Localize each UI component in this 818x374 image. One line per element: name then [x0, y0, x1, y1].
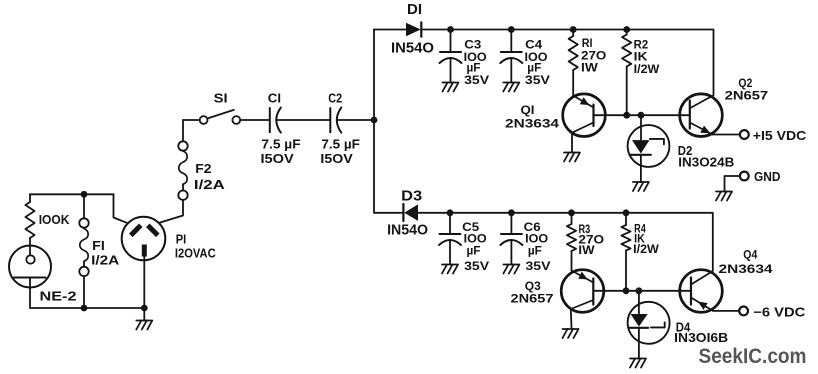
plug P1 left prong — [131, 225, 141, 235]
D4 cathode bar — [630, 327, 649, 329]
ground under Q1 — [564, 153, 580, 162]
Q2 collector slant — [690, 95, 714, 108]
wire C5 lead — [449, 213, 451, 234]
node D4-base junction — [636, 287, 643, 294]
svg-text:IN54O: IN54O — [391, 40, 434, 56]
wire C2 to node — [337, 119, 374, 121]
wire R3 top lead — [571, 213, 573, 224]
diode D1 triangle — [406, 23, 421, 36]
wire R1 top lead — [572, 30, 574, 37]
capacitor C2 curved plate — [337, 108, 342, 133]
capacitor C6 curved plate — [500, 240, 522, 245]
capacitor C2 left plate — [329, 108, 331, 132]
switch S1 right contact — [232, 116, 240, 124]
svg-text:C4: C4 — [525, 39, 543, 51]
wire D4 top lead — [638, 291, 640, 314]
svg-text:RI: RI — [582, 38, 593, 50]
svg-text:SI: SI — [214, 90, 228, 105]
node R2-base junction — [623, 112, 630, 119]
fuse F1 top terminal — [79, 218, 88, 227]
svg-text:C5: C5 — [462, 222, 480, 234]
wire plug ground stem — [143, 308, 145, 321]
plug P1 bottom prong — [142, 245, 147, 257]
node R4-base junction — [623, 287, 630, 294]
svg-text:7.5 µF: 7.5 µF — [321, 137, 360, 151]
capacitor C5 curved plate — [439, 240, 461, 245]
NE-2 dot electrode — [26, 255, 34, 263]
svg-text:µF: µF — [467, 245, 481, 257]
transistor Q2 body — [680, 94, 723, 137]
NE-2 top electrode lead — [29, 246, 31, 256]
Q3 collector slant — [571, 300, 594, 309]
node R1 junction — [570, 26, 577, 33]
capacitor C3 curved plate — [440, 58, 462, 63]
zener diode D2 envelope — [628, 125, 670, 167]
svg-text:F2: F2 — [195, 162, 211, 176]
wire R1 to Q1 emitter — [572, 70, 574, 96]
node R2 junction — [623, 26, 630, 33]
Q1 collector slant — [572, 123, 594, 133]
resistor R 100K — [25, 202, 34, 238]
svg-text:C3: C3 — [464, 39, 481, 51]
svg-text:IN3O24B: IN3O24B — [678, 156, 734, 170]
svg-text:2N657: 2N657 — [725, 89, 769, 103]
neon lamp NE-2 envelope — [9, 246, 51, 288]
svg-text:IK: IK — [634, 52, 649, 64]
Q2 emitter arrow — [700, 126, 710, 134]
Q1 base bar — [592, 105, 594, 127]
wire GND terminal lead — [725, 176, 740, 192]
wire S1 to C1 — [240, 119, 270, 121]
svg-text:7.5 µF: 7.5 µF — [261, 137, 301, 151]
wire main vertical — [373, 30, 375, 213]
ground under GND terminal — [716, 192, 732, 201]
wire R2 top lead — [626, 30, 628, 35]
wire C1 to C2 — [276, 119, 330, 121]
wire D2 top lead — [640, 115, 642, 140]
node R4 junction — [623, 209, 630, 216]
capacitor C4 top plate — [501, 51, 522, 53]
wire R2 to base rail — [626, 67, 628, 115]
Q2 base bar — [689, 101, 691, 129]
svg-text:I5OV: I5OV — [320, 152, 353, 166]
switch S1 arm — [207, 110, 234, 119]
Q4 collector slant — [691, 271, 713, 285]
wire Q3-Q4 base rail — [593, 290, 691, 292]
resistor R2 — [622, 35, 631, 67]
resistor R1 — [569, 36, 578, 70]
capacitor C1 left plate — [269, 108, 271, 132]
wire C4 lead — [510, 30, 512, 53]
resistor R4 — [621, 225, 630, 251]
wire R3 to Q3 emitter — [571, 251, 573, 271]
capacitor C4 curved plate — [500, 58, 522, 63]
Q3 base bar — [592, 279, 594, 305]
diode D1 cathode bar — [420, 22, 422, 36]
NE-2 bottom lead — [29, 278, 31, 309]
svg-text:IW: IW — [581, 62, 598, 74]
wire Q3 collector to ground — [570, 309, 573, 328]
capacitor C1 curved plate — [276, 108, 281, 133]
Q1 emitter arrow — [580, 97, 590, 105]
switch S1 left contact — [200, 116, 208, 124]
svg-text:I/2A: I/2A — [91, 254, 119, 268]
svg-text:IOO: IOO — [525, 234, 548, 246]
D4 triangle — [631, 314, 648, 327]
wire D4 bottom lead — [638, 328, 640, 359]
Q4 emitter slant — [691, 298, 713, 311]
svg-text:I/2A: I/2A — [194, 178, 225, 192]
svg-text:2N3634: 2N3634 — [719, 262, 773, 276]
wire Q1-Q2 base rail — [594, 114, 690, 116]
wire corner to S1 — [183, 119, 200, 121]
wire C5 ground stem — [449, 240, 451, 264]
resistor R3 — [567, 224, 576, 251]
terminal -6 VDC — [739, 307, 748, 316]
capacitor C3 top plate — [440, 51, 461, 53]
ground under D4 — [630, 359, 646, 368]
wire Q2 emitter to terminal — [713, 134, 740, 136]
ground under plug — [136, 321, 152, 330]
transistor Q3 body — [561, 270, 604, 313]
node R3 junction — [568, 209, 575, 216]
svg-text:IW: IW — [578, 245, 594, 257]
Q3 emitter arrow — [578, 272, 588, 280]
svg-text:IOO: IOO — [464, 234, 487, 246]
transistor Q1 body — [563, 94, 606, 137]
wire top-left rail — [30, 193, 114, 196]
svg-text:2N3634: 2N3634 — [505, 117, 559, 131]
node C6 junction — [508, 209, 515, 216]
svg-text:C6: C6 — [524, 222, 541, 234]
svg-text:I2OVAC: I2OVAC — [175, 247, 216, 261]
wire bottom rail — [418, 213, 713, 271]
fuse F2 element — [179, 151, 187, 184]
node plug-bottom junction — [141, 305, 148, 312]
node F1-bottom junction — [81, 305, 88, 312]
node F1-top junction — [81, 191, 88, 198]
D2 triangle — [632, 140, 649, 153]
svg-text:−6 VDC: −6 VDC — [753, 304, 806, 319]
wire bottom-left rail — [30, 307, 144, 309]
ground under Q3 — [563, 329, 579, 338]
terminal GND — [740, 172, 749, 181]
svg-text:+I5 VDC: +I5 VDC — [753, 128, 807, 143]
wire R4 to base rail — [625, 251, 627, 291]
svg-text:I5OV: I5OV — [261, 152, 295, 166]
fuse F2 bottom terminal — [178, 191, 187, 200]
svg-text:CI: CI — [268, 90, 281, 105]
fuse F2 top terminal — [178, 141, 187, 150]
transistor Q4 body — [680, 270, 723, 313]
svg-text:2N657: 2N657 — [511, 292, 554, 306]
svg-text:35V: 35V — [464, 75, 489, 87]
node C3 junction — [447, 26, 454, 33]
wire D2 bottom lead — [640, 155, 642, 182]
svg-text:NE-2: NE-2 — [40, 290, 77, 304]
ground under C5 — [442, 265, 458, 274]
D2 zener hook — [650, 139, 664, 144]
Q4 base bar — [690, 278, 692, 305]
svg-text:µF: µF — [467, 62, 481, 74]
wire C6 lead — [510, 213, 512, 234]
svg-text:IOOK: IOOK — [39, 213, 70, 227]
svg-text:IN3OI6B: IN3OI6B — [674, 331, 728, 345]
D4 zener hook — [651, 322, 665, 327]
plug P1 right prong — [148, 225, 158, 235]
wire Q4 emitter to terminal — [713, 310, 739, 312]
fuse F1 element — [80, 229, 88, 262]
node C4 junction — [508, 26, 515, 33]
svg-text:DI: DI — [407, 2, 422, 18]
svg-text:D3: D3 — [401, 188, 422, 204]
svg-text:PI: PI — [176, 232, 187, 246]
wire 100K top lead — [29, 194, 31, 202]
svg-text:I/2W: I/2W — [634, 64, 660, 76]
Q3 emitter slant — [572, 271, 594, 283]
terminal +15 VDC — [740, 130, 749, 139]
wire plug bottom lead — [143, 257, 145, 309]
svg-text:GND: GND — [754, 169, 781, 184]
capacitor C5 top plate — [440, 233, 461, 235]
svg-text:35V: 35V — [525, 75, 550, 87]
wire top rail — [421, 30, 713, 96]
wire 100K to NE-2 — [29, 238, 31, 246]
wire R4 top lead — [625, 213, 627, 225]
D2 cathode bar — [631, 154, 651, 156]
svg-text:SeekIC.com: SeekIC.com — [699, 345, 807, 368]
ground under C6 — [503, 265, 519, 274]
wire F1 bottom lead — [83, 261, 85, 308]
node C5 junction — [447, 209, 454, 216]
wire top rail left — [374, 29, 406, 31]
svg-text:I/2W: I/2W — [633, 244, 659, 256]
wire F1 top lead — [83, 194, 85, 218]
NE-2 plate electrode — [14, 277, 46, 279]
wire C6 ground stem — [510, 240, 512, 264]
svg-text:µF: µF — [527, 62, 541, 74]
svg-text:C2: C2 — [328, 90, 342, 105]
svg-text:Q4: Q4 — [743, 248, 757, 262]
Q1 emitter slant — [573, 96, 593, 108]
plug P1 body — [122, 217, 166, 261]
wire plug left lead — [114, 194, 129, 223]
svg-text:µF: µF — [528, 245, 542, 257]
wire C3 ground stem — [450, 58, 452, 82]
capacitor C6 top plate — [501, 233, 522, 235]
ground under C4 — [503, 83, 519, 92]
wire C3 lead — [450, 30, 452, 53]
node main junction — [371, 117, 378, 124]
Q4 emitter arrow — [698, 302, 708, 310]
wire Q1 collector to ground — [571, 133, 573, 153]
fuse F1 bottom terminal — [79, 267, 88, 276]
wire bottom rail left — [374, 212, 404, 214]
svg-text:FI: FI — [92, 239, 105, 253]
svg-text:27O: 27O — [581, 51, 606, 63]
wire plug right lead — [160, 200, 183, 223]
Q2 emitter slant — [690, 123, 713, 135]
svg-text:R2: R2 — [634, 40, 649, 52]
diode D3 triangle — [404, 204, 418, 221]
svg-text:QI: QI — [521, 103, 535, 117]
diode D3 cathode bar — [402, 204, 404, 221]
ground under C3 — [443, 83, 459, 92]
zener diode D4 envelope — [628, 302, 670, 344]
wire C4 ground stem — [510, 58, 512, 82]
svg-text:35V: 35V — [526, 261, 551, 273]
svg-text:35V: 35V — [464, 261, 489, 273]
ground under D2 — [633, 182, 649, 191]
svg-text:IN54O: IN54O — [387, 222, 428, 238]
wire F2 top lead — [182, 120, 184, 141]
node D2-base junction — [638, 112, 645, 119]
wire F2 element-to-terminal — [182, 184, 184, 190]
